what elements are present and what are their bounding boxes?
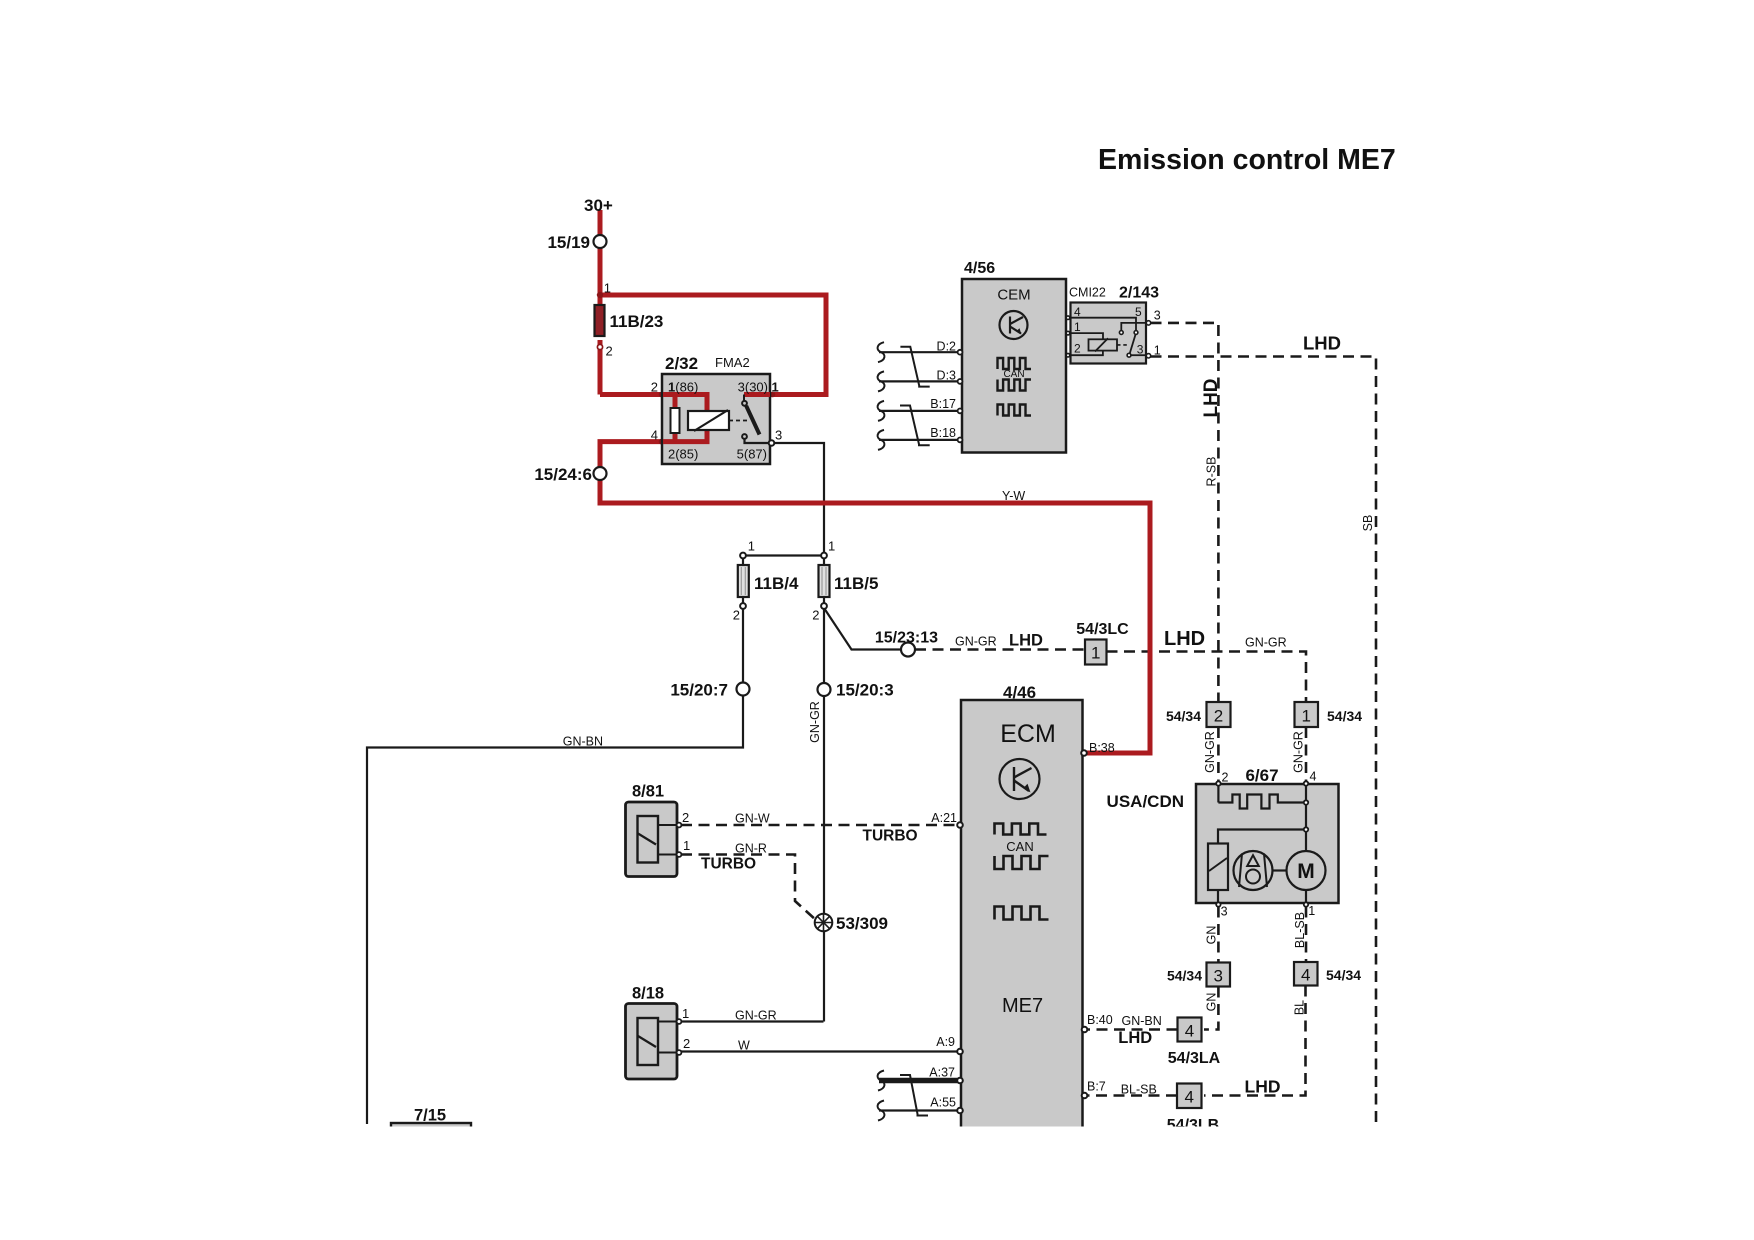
svg-text:1: 1 — [1301, 707, 1310, 726]
svg-text:54/34: 54/34 — [1326, 967, 1361, 983]
svg-text:2: 2 — [812, 608, 819, 623]
svg-text:2: 2 — [606, 344, 613, 359]
svg-text:4: 4 — [1185, 1022, 1194, 1041]
svg-text:6/67: 6/67 — [1245, 766, 1278, 785]
svg-text:USA/CDN: USA/CDN — [1107, 792, 1184, 811]
svg-text:15/20:3: 15/20:3 — [836, 681, 894, 700]
svg-text:3: 3 — [1137, 343, 1144, 357]
svg-text:LHD: LHD — [1118, 1029, 1152, 1047]
svg-text:15/19: 15/19 — [547, 233, 590, 252]
svg-text:B:40: B:40 — [1087, 1013, 1113, 1027]
svg-text:8/81: 8/81 — [632, 783, 664, 801]
svg-text:1: 1 — [1091, 644, 1100, 663]
svg-text:4: 4 — [1184, 1088, 1193, 1107]
svg-text:4/56: 4/56 — [964, 260, 995, 277]
svg-text:B:17: B:17 — [930, 397, 956, 411]
svg-text:2: 2 — [1222, 771, 1229, 785]
svg-text:11B/5: 11B/5 — [834, 574, 878, 593]
svg-text:1: 1 — [1308, 904, 1315, 918]
svg-text:M: M — [1297, 860, 1315, 883]
svg-text:3: 3 — [775, 428, 782, 443]
svg-text:GN-GR: GN-GR — [1245, 636, 1287, 650]
svg-text:15/24:6: 15/24:6 — [534, 465, 592, 484]
svg-text:1: 1 — [683, 838, 690, 853]
svg-text:W: W — [738, 1039, 750, 1053]
svg-text:B:38: B:38 — [1089, 741, 1115, 755]
svg-text:CAN: CAN — [1006, 839, 1033, 854]
svg-text:TURBO: TURBO — [701, 856, 756, 873]
svg-text:GN-GR: GN-GR — [1292, 731, 1306, 773]
svg-text:2: 2 — [1074, 342, 1081, 356]
svg-text:ECM: ECM — [1000, 720, 1056, 748]
svg-text:GN: GN — [1205, 993, 1219, 1012]
svg-text:GN-GR: GN-GR — [808, 701, 822, 743]
svg-text:11B/23: 11B/23 — [610, 312, 664, 331]
svg-text:2/32: 2/32 — [665, 354, 698, 373]
svg-text:54/34: 54/34 — [1166, 708, 1201, 724]
svg-text:LHD: LHD — [1201, 378, 1222, 417]
svg-text:11B/4: 11B/4 — [754, 574, 799, 593]
svg-text:GN-GR: GN-GR — [955, 635, 997, 649]
svg-text:A:21: A:21 — [931, 811, 957, 825]
svg-text:1: 1 — [1154, 344, 1161, 358]
svg-text:2(85): 2(85) — [668, 447, 698, 462]
svg-text:GN: GN — [1205, 926, 1219, 945]
svg-text:A:55: A:55 — [930, 1096, 956, 1110]
svg-text:GN-GR: GN-GR — [1203, 731, 1217, 773]
svg-text:4: 4 — [1301, 966, 1310, 985]
svg-text:B:18: B:18 — [930, 426, 956, 440]
svg-text:53/309: 53/309 — [836, 914, 888, 933]
svg-text:2: 2 — [682, 810, 689, 825]
svg-text:ME7: ME7 — [1002, 995, 1043, 1017]
svg-text:GN-W: GN-W — [735, 812, 770, 826]
svg-text:B:7: B:7 — [1087, 1080, 1106, 1094]
svg-text:1: 1 — [828, 539, 835, 554]
svg-text:1: 1 — [1074, 320, 1081, 334]
svg-text:BL: BL — [1293, 1000, 1307, 1015]
svg-text:4: 4 — [1074, 305, 1081, 319]
svg-text:3(30): 3(30) — [738, 380, 768, 395]
svg-text:GN-R: GN-R — [735, 842, 767, 856]
svg-text:BL-SB: BL-SB — [1293, 912, 1307, 948]
svg-text:3: 3 — [1213, 967, 1222, 986]
svg-text:TURBO: TURBO — [863, 828, 918, 845]
svg-text:15/20:7: 15/20:7 — [670, 681, 728, 700]
svg-text:CMI22: CMI22 — [1069, 286, 1106, 300]
svg-text:5: 5 — [1135, 305, 1142, 319]
svg-text:CAN: CAN — [1003, 369, 1024, 380]
svg-text:1: 1 — [772, 380, 779, 395]
svg-text:30+: 30+ — [584, 196, 613, 215]
svg-text:LHD: LHD — [1164, 628, 1205, 650]
svg-text:2: 2 — [683, 1036, 690, 1051]
svg-text:4: 4 — [1310, 770, 1317, 784]
svg-text:R-SB: R-SB — [1205, 457, 1219, 487]
svg-text:BL-SB: BL-SB — [1121, 1083, 1157, 1097]
svg-text:D:3: D:3 — [937, 369, 957, 383]
svg-text:54/3LC: 54/3LC — [1076, 621, 1129, 638]
svg-text:2/143: 2/143 — [1119, 285, 1159, 302]
svg-text:54/3LA: 54/3LA — [1168, 1050, 1221, 1067]
svg-text:15/23:13: 15/23:13 — [875, 630, 938, 647]
svg-text:GN-BN: GN-BN — [1122, 1014, 1162, 1028]
svg-text:4/46: 4/46 — [1003, 683, 1036, 702]
svg-text:GN-BN: GN-BN — [563, 735, 603, 749]
svg-text:A:37: A:37 — [929, 1066, 955, 1080]
svg-text:LHD: LHD — [1303, 333, 1341, 354]
svg-text:FMA2: FMA2 — [715, 355, 750, 370]
svg-text:3: 3 — [1221, 905, 1228, 919]
svg-text:Y-W: Y-W — [1002, 489, 1025, 503]
svg-text:54/34: 54/34 — [1327, 708, 1362, 724]
svg-text:CEM: CEM — [997, 287, 1030, 304]
svg-text:A:9: A:9 — [936, 1035, 955, 1049]
svg-text:54/34: 54/34 — [1167, 968, 1202, 984]
svg-text:8/18: 8/18 — [632, 985, 664, 1003]
svg-text:5(87): 5(87) — [737, 447, 767, 462]
svg-text:2: 2 — [651, 380, 658, 395]
svg-text:D:2: D:2 — [937, 340, 957, 354]
svg-text:GN-GR: GN-GR — [735, 1009, 777, 1023]
svg-text:2: 2 — [1214, 707, 1223, 726]
svg-text:4: 4 — [651, 428, 658, 443]
svg-text:Emission control ME7: Emission control ME7 — [1098, 144, 1396, 176]
svg-text:2: 2 — [733, 608, 740, 623]
svg-text:LHD: LHD — [1245, 1077, 1281, 1097]
svg-text:1: 1 — [682, 1006, 689, 1021]
svg-text:1: 1 — [748, 539, 755, 554]
svg-text:1: 1 — [604, 281, 611, 296]
svg-text:SB: SB — [1361, 515, 1375, 532]
svg-text:3: 3 — [1154, 309, 1161, 323]
svg-text:1(86): 1(86) — [668, 380, 698, 395]
svg-text:7/15: 7/15 — [414, 1107, 446, 1125]
svg-text:LHD: LHD — [1009, 632, 1043, 650]
